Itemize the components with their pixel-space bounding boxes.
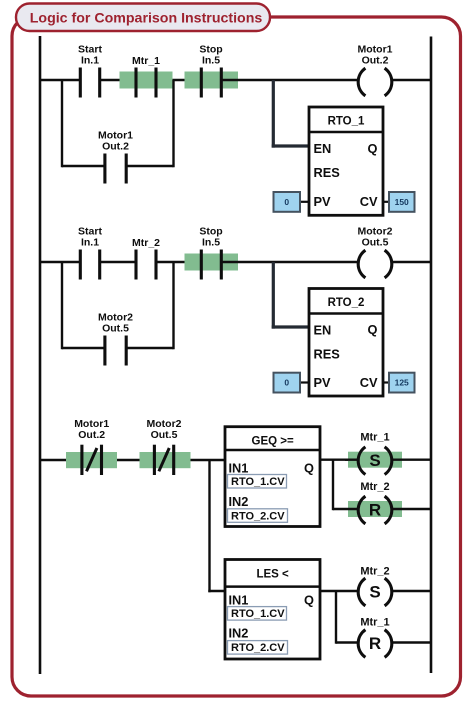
- wire rung1 Stop contact to coil: [221, 79, 358, 81]
- svg-text:125: 125: [395, 378, 409, 388]
- wire set coil Mtr_1 to right rail: [392, 459, 432, 461]
- green highlight Stop In.5 contact rung2: [185, 254, 239, 271]
- value box RTO_1.CV LES IN1: [228, 607, 287, 621]
- green highlight reset coil Mtr_2: [348, 501, 402, 517]
- svg-text:RTO_1.CV: RTO_1.CV: [231, 476, 285, 488]
- wire rung2 seal branch to contact: [62, 347, 105, 349]
- svg-text:Out.2: Out.2: [362, 55, 389, 67]
- coil Motor1 Out.2: [358, 43, 393, 95]
- svg-text:In.5: In.5: [202, 237, 220, 249]
- wire rung2 seal branch contact to riser: [126, 347, 173, 349]
- svg-text:Out.5: Out.5: [362, 237, 389, 249]
- svg-text:0: 0: [284, 378, 289, 388]
- green highlight set coil Mtr_1: [348, 452, 402, 468]
- svg-text:GEQ >=: GEQ >=: [252, 436, 294, 448]
- wire LES Q to set coil: [320, 590, 359, 592]
- svg-text:Start: Start: [78, 225, 102, 237]
- wire rung1 Start to Mtr_1 contact: [100, 79, 136, 81]
- svg-text:Mtr_2: Mtr_2: [360, 481, 389, 493]
- wire LES branch junction to coils: [336, 591, 359, 644]
- wire rung2 seal branch riser: [172, 262, 174, 349]
- svg-text:RES: RES: [314, 347, 341, 362]
- green highlight Motor2 Out.5 NC contact: [140, 452, 191, 468]
- svg-text:In.1: In.1: [81, 237, 99, 249]
- wire rung1 seal branch to contact: [62, 165, 105, 167]
- NO contact Stop In.5 rung2: [199, 225, 222, 279]
- wire rung1 seal branch left drop: [61, 80, 63, 167]
- wire rung3 Motor1 to Motor2 contact: [102, 459, 155, 461]
- timer block RTO_2: [309, 289, 383, 397]
- NO contact Mtr_2 rung2: [132, 237, 160, 280]
- set coil Mtr_1 (S): [358, 432, 392, 475]
- wire rung2 coil to right rail: [392, 261, 432, 263]
- wire rung2 rail to Start contact: [40, 261, 80, 263]
- value box CV accum 150 RTO_1: [383, 192, 415, 212]
- green highlight Motor1 Out.2 NC contact: [66, 452, 117, 468]
- svg-text:PV: PV: [314, 194, 332, 209]
- svg-text:Motor1: Motor1: [98, 129, 133, 141]
- value box RTO_2.CV GEQ IN2: [228, 509, 288, 523]
- svg-text:RES: RES: [314, 165, 341, 180]
- NO contact Motor2 Out.5 seal rung2: [98, 311, 133, 365]
- svg-text:Mtr_1: Mtr_1: [360, 617, 389, 629]
- svg-text:CV: CV: [360, 194, 378, 209]
- svg-text:Mtr_2: Mtr_2: [360, 566, 389, 578]
- set coil Mtr_2 (S): [358, 566, 392, 606]
- NC contact Motor2 Out.5 rung3: [147, 418, 182, 475]
- right power rail: [430, 37, 433, 674]
- svg-text:EN: EN: [314, 323, 332, 338]
- svg-text:Out.2: Out.2: [102, 141, 129, 153]
- svg-text:Out.5: Out.5: [102, 323, 129, 335]
- wire reset coil Mtr_2 to right rail: [392, 508, 432, 510]
- wire set coil Mtr_2 to right rail: [392, 590, 432, 592]
- timer block RTO_1: [309, 107, 383, 215]
- svg-text:0: 0: [284, 197, 289, 207]
- wire rung1 seal branch riser: [172, 80, 174, 167]
- svg-text:RTO_2.CV: RTO_2.CV: [231, 642, 285, 654]
- svg-text:S: S: [369, 451, 380, 470]
- wire rung1 coil to right rail: [392, 79, 432, 81]
- wire rung3 Motor2 contact to GEQ block: [174, 459, 225, 461]
- wire rung3 rail to Motor1 contact: [40, 459, 82, 461]
- wire rung1 branch to RTO_1 EN: [272, 80, 309, 148]
- svg-text:PV: PV: [314, 375, 332, 390]
- wire rung1 seal branch contact to riser: [126, 165, 173, 167]
- svg-text:Start: Start: [78, 43, 102, 55]
- svg-text:R: R: [369, 500, 381, 519]
- value box RTO_1.CV GEQ IN1: [228, 475, 287, 489]
- wire GEQ Q to set coil: [320, 459, 348, 461]
- svg-text:EN: EN: [314, 141, 332, 156]
- svg-text:R: R: [369, 634, 381, 653]
- svg-text:IN2: IN2: [229, 626, 249, 641]
- coil Motor2 Out.5: [358, 225, 393, 277]
- svg-text:Mtr_2: Mtr_2: [132, 237, 160, 249]
- wire GEQ branch junction to coils: [333, 460, 359, 511]
- svg-text:Stop: Stop: [199, 225, 222, 237]
- svg-text:150: 150: [395, 197, 409, 207]
- value box PV preset 0 RTO_2: [274, 373, 310, 393]
- NO contact Start In.1 rung1: [78, 43, 102, 97]
- svg-text:Mtr_1: Mtr_1: [132, 55, 160, 67]
- wire rung2 Start to Mtr_2 contact: [100, 261, 136, 263]
- svg-text:RTO_1: RTO_1: [328, 116, 365, 128]
- svg-text:RTO_1.CV: RTO_1.CV: [231, 608, 285, 620]
- left power rail: [39, 36, 42, 674]
- svg-text:RTO_2.CV: RTO_2.CV: [231, 510, 285, 522]
- svg-text:Q: Q: [304, 592, 314, 607]
- svg-text:RTO_2: RTO_2: [328, 297, 365, 309]
- green highlight Mtr_1 contact rung1: [120, 72, 173, 89]
- wire rung1 rail to Start contact: [40, 79, 80, 81]
- NO contact Mtr_1 rung1: [132, 55, 160, 98]
- svg-text:Motor1: Motor1: [358, 43, 393, 55]
- svg-text:Q: Q: [368, 141, 378, 156]
- svg-text:Out.5: Out.5: [151, 429, 178, 441]
- svg-text:CV: CV: [360, 375, 378, 390]
- wire rung3 branch down to LES block: [208, 460, 225, 592]
- wire rung2 branch to RTO_2 EN: [272, 262, 309, 329]
- reset coil Mtr_1 (R): [358, 617, 392, 658]
- compare block LES: [225, 560, 320, 660]
- wire rung1 Mtr_1 to Stop contact: [156, 79, 201, 81]
- wire reset coil Mtr_1 to right rail: [392, 641, 432, 643]
- wire rung2 Mtr_2 to Stop contact: [156, 261, 201, 263]
- value box RTO_2.CV LES IN2: [228, 641, 288, 655]
- svg-text:Logic for Comparison Instructi: Logic for Comparison Instructions: [30, 11, 263, 27]
- wire rung2 seal branch left drop: [61, 262, 63, 349]
- svg-text:IN2: IN2: [229, 494, 249, 509]
- svg-text:In.5: In.5: [202, 55, 220, 67]
- title banner: [16, 4, 270, 32]
- svg-text:Q: Q: [304, 461, 314, 476]
- compare block GEQ: [225, 427, 320, 527]
- green highlight Stop In.5 contact rung1: [185, 72, 239, 89]
- svg-text:In.1: In.1: [81, 55, 99, 67]
- svg-text:Out.2: Out.2: [78, 429, 105, 441]
- svg-text:S: S: [369, 582, 380, 601]
- svg-text:LES <: LES <: [256, 569, 289, 581]
- svg-text:Stop: Stop: [199, 43, 222, 55]
- svg-text:Q: Q: [368, 322, 378, 337]
- NO contact Start In.1 rung2: [78, 225, 102, 279]
- svg-text:IN1: IN1: [229, 461, 249, 476]
- reset coil Mtr_2 (R): [358, 481, 392, 524]
- svg-text:Motor2: Motor2: [358, 225, 393, 237]
- NO contact Stop In.5 rung1: [199, 43, 222, 97]
- value box PV preset 0 RTO_1: [274, 192, 310, 212]
- wire rung2 Stop contact to coil: [221, 261, 358, 263]
- svg-text:Mtr_1: Mtr_1: [360, 432, 389, 444]
- value box CV accum 125 RTO_2: [383, 373, 415, 393]
- svg-text:IN1: IN1: [229, 592, 249, 607]
- NO contact Motor1 Out.2 seal rung1: [98, 129, 133, 183]
- NC contact Motor1 Out.2 rung3: [74, 418, 109, 475]
- svg-text:Motor2: Motor2: [98, 311, 133, 323]
